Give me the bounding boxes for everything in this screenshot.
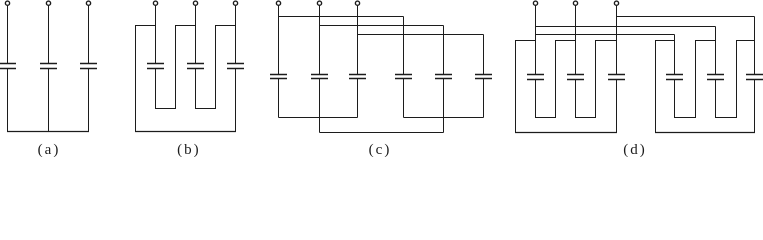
long wire from terminal 3d to right-block feed 3: [617, 16, 755, 18]
wire: drop from branch 3c down to C12: [483, 35, 485, 75]
terminal 1 of group (a): [5, 1, 9, 5]
feed drop to C16 (right block): [674, 35, 676, 75]
terminal 2 of group (d): [573, 1, 577, 5]
U-link 2b bottom wire: [195, 108, 216, 110]
riser: U-link 1r up to jumper 2r: [695, 41, 697, 118]
wire: C4 bottom down to U-link 1b: [155, 69, 157, 109]
jumper wire at top of branch 2r (right block): [695, 40, 716, 42]
feed drop to C18 (right block): [754, 17, 756, 75]
wire: terminal 2c down to C8: [319, 6, 321, 75]
terminal 2 of group (b): [193, 1, 197, 5]
svg-text:(a): (a): [38, 142, 61, 157]
U-link 2r bottom wire: [715, 117, 737, 119]
riser: U-link 1b up to jumper 2b: [175, 26, 177, 109]
svg-text:(b): (b): [177, 142, 201, 157]
long wire from terminal 1d to right-block feed 2: [536, 26, 716, 28]
U-link 1r bottom wire: [674, 117, 696, 119]
jumper wire at top of branch 3d (left block): [595, 40, 617, 42]
bottom bus of left block (d): [515, 132, 617, 134]
capacitor C7: [270, 74, 287, 76]
wire: terminal 1d down to C13: [535, 6, 537, 75]
capacitor C5: [187, 63, 204, 65]
wire: terminal 1a down to C1: [7, 6, 9, 64]
wire: C10 bottom to right bus (c): [403, 79, 405, 118]
terminal 1 of group (d): [533, 1, 537, 5]
terminal 1 of group (c): [276, 1, 280, 5]
wire: C2 down to bottom bus (a): [48, 69, 50, 132]
wire: C13 bottom down to U-link 1d: [535, 80, 537, 118]
left line of branch 1r down to right-block bus: [655, 41, 657, 133]
jumper wire at top of branch 1r (right block): [655, 40, 675, 42]
riser: U-link 2d up to jumper 3d: [595, 41, 597, 118]
wire: C3 down to bottom bus (a): [88, 69, 90, 132]
capacitor C4: [147, 63, 164, 65]
terminal 1 of group (b): [153, 1, 157, 5]
capacitor C12: [475, 74, 492, 76]
terminal 3 of group (c): [355, 1, 359, 5]
bottom bus of right block (d): [655, 132, 755, 134]
jumper wire at top of branch 2b: [175, 25, 196, 27]
wire: C17 bottom down to U-link 2r: [715, 80, 717, 118]
branch wire from terminal 2c across to drop of C11: [320, 25, 444, 27]
svg-text:(d): (d): [623, 142, 647, 157]
capacitor C16: [666, 74, 683, 76]
left line of branch 1b down to bus: [135, 26, 137, 132]
capacitor C9: [349, 74, 366, 76]
wire: terminal 3c down to C9: [357, 6, 359, 75]
capacitor C1: [0, 63, 16, 65]
wire: terminal 1b down to C4: [155, 6, 157, 64]
wire: terminal 2a down to C2: [48, 6, 50, 64]
low bus of group (c) joining C8 and C11: [320, 132, 444, 134]
branch wire from terminal 1c across to drop of C10: [279, 16, 404, 18]
wire: C9 bottom to left bus (c): [357, 79, 359, 118]
terminal 2 of group (a): [46, 1, 50, 5]
jumper wire at top of branch 2d (left block): [555, 40, 576, 42]
riser: U-link 2r up to jumper 3r: [736, 41, 738, 118]
jumper wire at top of branch 3r (right block): [736, 40, 755, 42]
svg-text:(c): (c): [369, 142, 392, 157]
capacitor C2: [40, 63, 57, 65]
wire: C1 down to bottom bus (a): [7, 69, 9, 132]
branch wire from terminal 3c across to drop of C12: [358, 34, 484, 36]
wire: C14 bottom down to U-link 2d: [575, 80, 577, 118]
terminal 3 of group (a): [86, 1, 90, 5]
U-link 1d bottom wire: [535, 117, 556, 119]
wire: drop from branch 2c down to C11: [443, 26, 445, 75]
wire: C12 bottom to right bus (c): [483, 79, 485, 118]
right bottom bus of group (c): [404, 117, 484, 119]
capacitor C3: [80, 63, 97, 65]
capacitor C10: [395, 74, 412, 76]
terminal 3 of group (b): [233, 1, 237, 5]
left bottom bus of group (c): [279, 117, 358, 119]
riser: U-link 2b up to jumper 3b: [215, 26, 217, 109]
wire: terminal 1c down to C7: [278, 6, 280, 75]
wire: C5 bottom down to U-link 2b: [195, 69, 197, 109]
wire: C18 bottom down to right-block bus: [754, 80, 756, 133]
capacitor C17: [707, 74, 724, 76]
wire: C8 bottom down to low bus (c): [319, 79, 321, 133]
capacitor C11: [435, 74, 452, 76]
long wire from terminal 1d to right-block feed 1: [536, 34, 675, 36]
capacitor C8: [311, 74, 328, 76]
jumper wire at top of branch 1b: [135, 25, 156, 27]
wire: terminal 3a down to C3: [88, 6, 90, 64]
terminal 3 of group (d): [614, 1, 618, 5]
wire: C15 bottom down to left-block bus: [616, 80, 618, 133]
feed drop to C17 (right block): [715, 27, 717, 75]
wire: C16 bottom down to U-link 1r: [674, 80, 676, 118]
left line of branch 1d down to left-block bus: [515, 41, 517, 133]
capacitor C18: [746, 74, 763, 76]
wire: terminal 3d down to C15: [616, 6, 618, 75]
jumper wire at top of branch 1d (left block): [515, 40, 536, 42]
wire: C11 bottom down to low bus (c): [443, 79, 445, 133]
terminal 2 of group (c): [317, 1, 321, 5]
bottom bus of group (b): [135, 131, 236, 133]
jumper wire at top of branch 3b: [215, 25, 236, 27]
bottom bus of group (a): [7, 131, 89, 133]
capacitor C14: [567, 74, 584, 76]
wire: drop from branch 1c down to C10: [403, 17, 405, 75]
U-link 1b bottom wire: [155, 108, 176, 110]
U-link 2d bottom wire: [575, 117, 596, 119]
capacitor C13: [527, 74, 544, 76]
capacitor C6: [227, 63, 244, 65]
wire: terminal 3b down to C6: [235, 6, 237, 64]
wire: C6 bottom down to bottom bus (b): [235, 69, 237, 132]
wire: terminal 2d down to C14: [575, 6, 577, 75]
capacitor C15: [608, 74, 625, 76]
wire: C7 bottom to left bus (c): [278, 79, 280, 118]
wire: terminal 2b down to C5: [195, 6, 197, 64]
riser: U-link 1d up to jumper 2d: [555, 41, 557, 118]
